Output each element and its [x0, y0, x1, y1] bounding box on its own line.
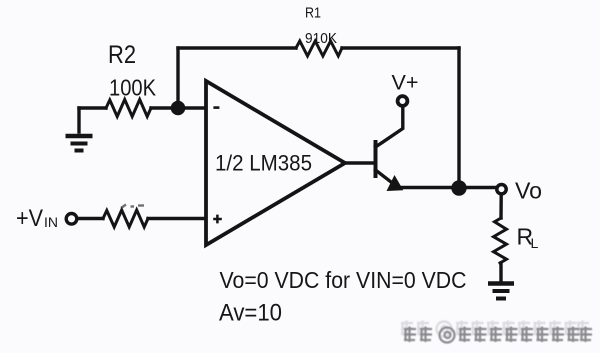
- svg-text:100K: 100K: [109, 75, 156, 101]
- svg-text:V+: V+: [392, 72, 419, 95]
- svg-text:1/2 LM385: 1/2 LM385: [215, 151, 312, 176]
- svg-text:+V: +V: [16, 205, 43, 232]
- svg-text:910K: 910K: [305, 30, 337, 47]
- svg-text:L: L: [531, 235, 539, 251]
- svg-text:IN: IN: [44, 214, 58, 230]
- svg-text:R1: R1: [305, 5, 321, 22]
- svg-text:Vo: Vo: [515, 178, 542, 204]
- svg-text:Vo=0 VDC for VIN=0 VDC: Vo=0 VDC for VIN=0 VDC: [220, 267, 467, 293]
- svg-text:R2: R2: [108, 41, 136, 69]
- svg-text:Av=10: Av=10: [219, 300, 282, 327]
